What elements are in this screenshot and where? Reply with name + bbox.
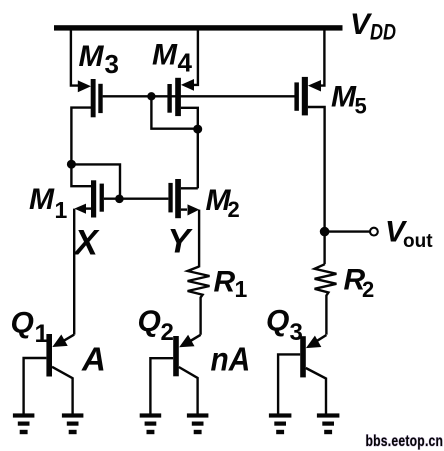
wire VDD to M4 source [192, 30, 198, 85]
svg-text:5: 5 [355, 94, 367, 119]
ground (Q3 base) [269, 413, 292, 434]
svg-text:M: M [152, 38, 178, 71]
transistor Q3 (PNP) [278, 335, 326, 414]
wire M4 gate-drain diode connection [151, 96, 194, 128]
node M1-M2 gate junction [115, 195, 124, 204]
node M1 drain-gate tie [67, 160, 76, 169]
svg-text:3: 3 [105, 49, 119, 79]
label node X [73, 224, 101, 263]
label M4 [152, 38, 193, 77]
label R1 [214, 265, 248, 302]
svg-text:bbs.eetop.cn: bbs.eetop.cn [366, 432, 444, 450]
watermark bbs.eetop.cn [366, 432, 444, 450]
ground (Q2 collector) [187, 413, 209, 434]
svg-text:DD: DD [370, 21, 396, 45]
label Vout [385, 216, 433, 252]
transistor M4 (PMOS, diode-connected) [167, 78, 197, 126]
label M1 [29, 183, 68, 223]
ground (Q3 collector) [317, 413, 340, 434]
svg-text:X: X [73, 224, 101, 263]
label emitter area A [81, 340, 106, 377]
wire gate bus M3-M4-M5 [103, 95, 295, 97]
label node Y [168, 223, 194, 261]
transistor M3 (PMOS) [71, 79, 102, 164]
transistor Q2 (PNP) [150, 335, 200, 414]
label Q1 [11, 307, 49, 348]
svg-text:2: 2 [161, 319, 174, 346]
wire to Vout terminal [329, 230, 370, 232]
node Vout junction [320, 227, 330, 237]
wire VDD to M3 source [71, 30, 79, 86]
transistor M2 (NMOS) [168, 179, 199, 267]
wire M4 drain to M2 drain [197, 129, 199, 188]
svg-text:4: 4 [178, 47, 193, 77]
svg-text:1: 1 [35, 320, 49, 348]
svg-text:M: M [29, 183, 55, 216]
node M4 drain junction [193, 125, 202, 134]
VDD rail [54, 25, 343, 30]
label Q2 [138, 305, 174, 346]
resistor R1 [188, 267, 210, 335]
svg-text:out: out [403, 231, 433, 252]
label M5 [331, 81, 367, 119]
terminal Vout open circle [370, 228, 378, 236]
svg-text:nA: nA [211, 340, 251, 378]
svg-text:2: 2 [228, 197, 240, 222]
wire M1 gate to M2 gate [104, 197, 168, 199]
label Q3 [266, 305, 303, 347]
transistor M1 (NMOS, diode-connected) [71, 164, 120, 335]
svg-text:Q: Q [138, 305, 161, 338]
wire VDD to M5 source [320, 30, 324, 86]
svg-text:R: R [214, 265, 236, 298]
resistor R2 [315, 264, 337, 334]
svg-text:Y: Y [168, 223, 194, 261]
label M3 [79, 40, 119, 79]
svg-text:Q: Q [266, 305, 289, 338]
svg-text:M: M [331, 81, 357, 114]
node gate bus junction [147, 92, 155, 100]
svg-text:3: 3 [290, 319, 303, 346]
svg-text:M: M [79, 40, 105, 73]
svg-text:1: 1 [235, 276, 248, 302]
label R2 [344, 264, 375, 302]
svg-text:A: A [81, 340, 106, 377]
ground (Q2 base) [140, 413, 162, 434]
label VDD [350, 8, 396, 45]
svg-text:1: 1 [55, 197, 68, 223]
transistor Q1 (PNP) [24, 334, 75, 414]
ground (Q1 base) [13, 413, 35, 434]
svg-text:Q: Q [11, 307, 34, 340]
wire R2 branch from M5 drain [323, 232, 325, 265]
ground (Q1 collector) [62, 413, 84, 434]
transistor M5 (PMOS) [294, 77, 324, 228]
label M2 [206, 184, 240, 222]
svg-text:2: 2 [362, 277, 374, 302]
label emitter area nA [211, 340, 251, 378]
